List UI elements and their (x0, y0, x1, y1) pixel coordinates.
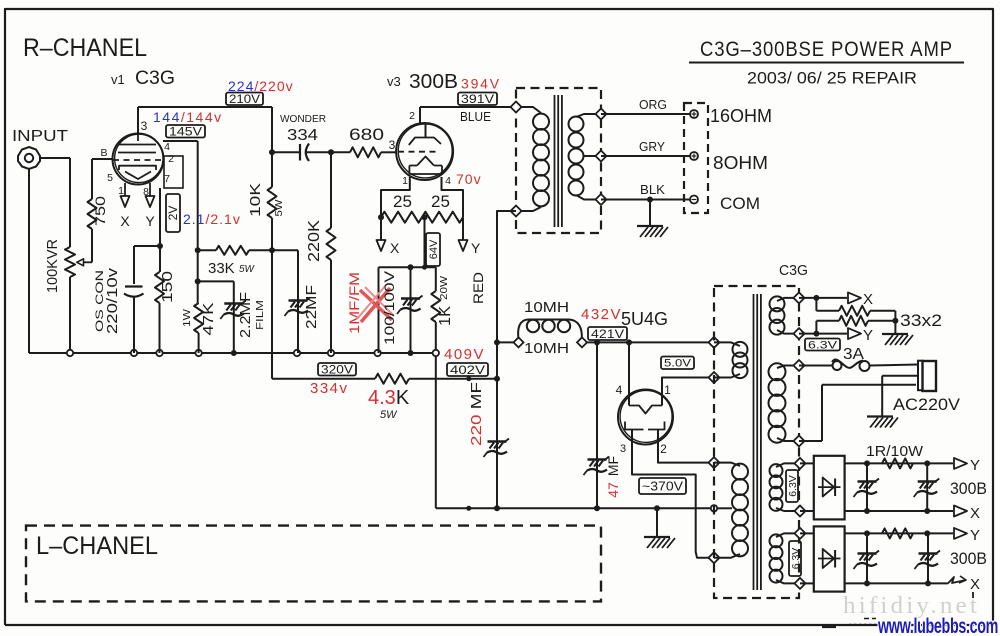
svg-text:www.lubebbs.com: www.lubebbs.com (877, 615, 998, 636)
svg-text:4: 4 (616, 383, 623, 397)
svg-text:421V: 421V (591, 327, 624, 341)
svg-text:5W: 5W (380, 409, 398, 421)
svg-text:25: 25 (393, 192, 412, 211)
svg-text:8OHM: 8OHM (713, 152, 768, 173)
svg-text:1: 1 (118, 185, 124, 197)
svg-text:5: 5 (107, 172, 113, 184)
svg-text:4: 4 (164, 141, 170, 153)
svg-text:5W: 5W (239, 264, 256, 275)
svg-text:X: X (970, 576, 980, 593)
svg-text:680: 680 (349, 125, 384, 144)
svg-text:X: X (970, 505, 980, 522)
svg-text:COM: COM (720, 195, 760, 213)
svg-text:5W: 5W (274, 199, 285, 217)
svg-text:300B: 300B (950, 549, 987, 568)
svg-text:Y: Y (145, 213, 155, 229)
svg-text:1K: 1K (437, 306, 454, 326)
svg-text:100/100V: 100/100V (381, 270, 397, 345)
svg-text:Y: Y (970, 457, 980, 474)
svg-text:334v: 334v (310, 380, 349, 397)
svg-text:47: 47 (605, 482, 621, 498)
svg-text:~370V: ~370V (642, 480, 684, 494)
svg-text:70v: 70v (456, 171, 482, 187)
svg-text:3: 3 (141, 119, 148, 133)
svg-text:L–CHANEL: L–CHANEL (36, 532, 158, 560)
svg-text:Y: Y (970, 527, 980, 544)
svg-text:2.2MF: 2.2MF (237, 292, 254, 338)
svg-text:100KVR: 100KVR (44, 239, 61, 293)
svg-text:WONDER: WONDER (280, 113, 326, 125)
svg-text:X: X (120, 213, 130, 229)
svg-text:64V: 64V (428, 239, 440, 259)
svg-text:10MH: 10MH (524, 340, 569, 357)
svg-text:C3G–300BSE POWER AMP: C3G–300BSE POWER AMP (700, 38, 953, 61)
svg-text:ORG: ORG (639, 98, 667, 112)
svg-text:6.3V: 6.3V (787, 475, 799, 497)
svg-text:145V: 145V (169, 125, 202, 139)
svg-text:16OHM: 16OHM (710, 105, 772, 126)
svg-text:1MF/FM: 1MF/FM (346, 272, 362, 334)
svg-text:6.3V: 6.3V (808, 339, 838, 351)
svg-text:2: 2 (660, 442, 667, 456)
svg-text:2: 2 (409, 110, 415, 122)
svg-text:22MF: 22MF (303, 285, 320, 329)
svg-text:4: 4 (445, 175, 451, 187)
svg-text:320V: 320V (321, 363, 353, 377)
svg-text:220 MF: 220 MF (468, 382, 485, 446)
svg-text:300B: 300B (409, 71, 458, 93)
svg-text:47K: 47K (200, 303, 217, 336)
svg-text:5U4G: 5U4G (621, 309, 668, 329)
svg-text:220K: 220K (306, 220, 323, 262)
svg-text:402V: 402V (450, 363, 485, 377)
svg-text:v3: v3 (387, 74, 401, 89)
svg-text:1: 1 (664, 383, 671, 397)
svg-text:MF: MF (605, 456, 621, 476)
svg-text:391V: 391V (461, 92, 494, 106)
svg-text:RED: RED (470, 272, 486, 304)
svg-text:R–CHANEL: R–CHANEL (23, 34, 147, 62)
svg-text:150: 150 (159, 271, 176, 303)
svg-text:2003/ 06/ 25 REPAIR: 2003/ 06/ 25 REPAIR (747, 69, 917, 88)
svg-text:3: 3 (389, 138, 396, 152)
svg-text:334: 334 (287, 127, 318, 144)
svg-text:Y: Y (863, 327, 873, 344)
svg-text:10K: 10K (247, 183, 264, 217)
svg-text:7: 7 (164, 173, 170, 185)
svg-text:6.3V: 6.3V (790, 548, 802, 570)
svg-text:2: 2 (168, 153, 174, 165)
svg-text:C3G: C3G (135, 68, 175, 89)
svg-text:B: B (100, 147, 107, 159)
svg-text:Y: Y (471, 240, 481, 256)
svg-text:432V: 432V (581, 306, 622, 323)
svg-text:20W: 20W (439, 275, 450, 300)
svg-text:409V: 409V (444, 346, 485, 363)
svg-text:C3G: C3G (779, 262, 808, 279)
svg-text:144/144v: 144/144v (153, 109, 223, 125)
svg-text:GRY: GRY (639, 140, 666, 154)
svg-text:1W: 1W (182, 308, 193, 327)
svg-text:33K: 33K (208, 260, 235, 277)
svg-text:750: 750 (92, 196, 108, 226)
svg-text:4.3K: 4.3K (368, 387, 410, 409)
svg-text:8: 8 (143, 186, 149, 198)
svg-text:X: X (863, 291, 873, 308)
svg-text:1: 1 (402, 175, 408, 187)
svg-text:33x2: 33x2 (900, 311, 942, 330)
svg-text:FILM: FILM (255, 300, 266, 330)
svg-text:v1: v1 (111, 72, 125, 87)
svg-text:10MH: 10MH (524, 299, 569, 316)
svg-text:394V: 394V (461, 76, 501, 92)
svg-text:210V: 210V (229, 92, 260, 106)
svg-text:3: 3 (620, 443, 626, 455)
svg-text:2.1/2.1v: 2.1/2.1v (183, 211, 241, 227)
svg-text:5.0V: 5.0V (664, 358, 692, 370)
svg-text:1R/10W: 1R/10W (866, 443, 924, 460)
svg-text:INPUT: INPUT (12, 128, 69, 145)
svg-text:25: 25 (431, 192, 450, 211)
svg-text:BLK: BLK (640, 183, 666, 197)
svg-text:BLUE: BLUE (460, 109, 491, 124)
svg-text:AC220V: AC220V (893, 395, 961, 414)
svg-text:X: X (390, 240, 400, 256)
svg-text:300B: 300B (950, 479, 987, 498)
svg-text:2V: 2V (166, 206, 180, 221)
svg-text:220/10v: 220/10v (104, 267, 121, 334)
